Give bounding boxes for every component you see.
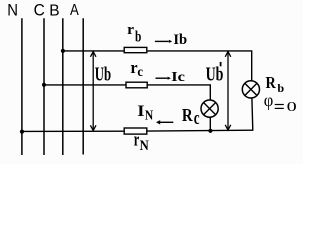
svg-text:A: A: [70, 2, 79, 19]
svg-text:N: N: [7, 2, 18, 20]
wire: bottom wire from rN to lamp Rb branch: [147, 129, 253, 132]
svg-text:Ub: Ub: [206, 63, 224, 85]
voltage arrow Ub (double-headed vertical): [90, 52, 96, 131]
node: junction dot where Rc branch meets bottom wire: [208, 129, 212, 133]
wire: top branch from rb to top-right corner, down to lamp Rb: [147, 51, 252, 81]
svg-text:r: r: [134, 130, 139, 150]
svg-text:Ub: Ub: [95, 63, 111, 85]
wire: from lamp Rc down to bottom wire: [209, 117, 211, 131]
svg-text:Ib: Ib: [173, 32, 187, 48]
node: junction dot on line C: [42, 83, 46, 87]
wire: phase line B: [62, 18, 64, 155]
lamp Rb: [242, 81, 259, 98]
svg-text:N: N: [140, 137, 149, 153]
svg-text:I: I: [137, 102, 145, 120]
svg-text:r: r: [127, 22, 134, 37]
current arrow Ib: [155, 40, 172, 43]
svg-text:c: c: [194, 109, 200, 129]
resistor rN: [124, 128, 147, 134]
wire: phase line C: [43, 18, 45, 155]
current arrow Ic: [156, 77, 171, 80]
voltage arrow Ub' (double-headed vertical): [225, 52, 231, 130]
svg-text:Ic: Ic: [171, 70, 185, 84]
wire: bottom neutral wire from line N to resistor rN: [22, 130, 124, 132]
resistor rb: [124, 47, 147, 52]
svg-text:N: N: [145, 107, 154, 122]
svg-text:R: R: [182, 104, 194, 125]
svg-text:B: B: [49, 2, 59, 19]
svg-text:φ: φ: [264, 91, 274, 111]
current arrow IN (pointing left): [156, 120, 173, 124]
wire: middle branch from rc to corner, down to lamp Rc: [147, 85, 211, 100]
lamp Rc: [201, 100, 218, 117]
wire: phase line A: [82, 18, 84, 154]
svg-text:c: c: [137, 63, 143, 79]
svg-text:C: C: [34, 2, 45, 19]
node: junction dot on line B: [61, 49, 65, 53]
svg-text:b: b: [135, 28, 141, 45]
wire: from lamp Rb down to bottom wire: [251, 98, 254, 131]
resistor rc: [126, 82, 147, 88]
svg-text:0: 0: [287, 98, 297, 114]
node: junction dot on line N: [20, 130, 24, 134]
wire: top branch from line B to resistor rb: [63, 50, 124, 52]
svg-text:b: b: [277, 81, 284, 95]
wire: middle branch from line C to resistor rc: [44, 84, 126, 86]
wire: phase line N: [21, 18, 23, 155]
